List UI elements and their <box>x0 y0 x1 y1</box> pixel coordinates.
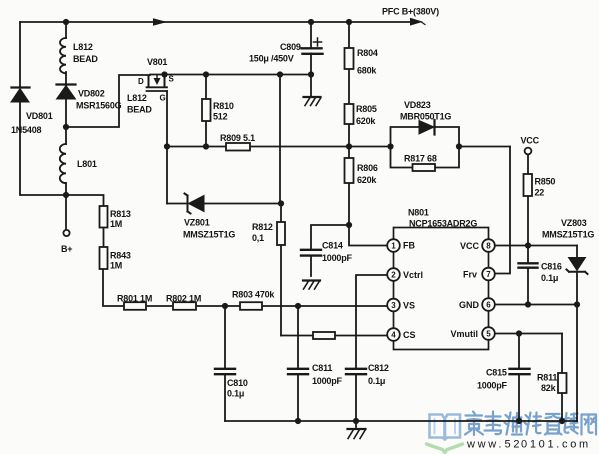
capacitor C812 <box>346 369 366 374</box>
svg-text:Vmutil: Vmutil <box>450 329 478 339</box>
label C815 1000pF <box>477 368 508 391</box>
svg-text:L812: L812 <box>73 42 93 52</box>
svg-text:GND: GND <box>459 300 480 310</box>
wire C815 column <box>518 334 520 422</box>
svg-text:VZ801: VZ801 <box>184 218 210 228</box>
capacitor C809 electrolytic <box>302 38 323 54</box>
label R810 512 <box>213 101 234 122</box>
svg-text:VS: VS <box>403 301 415 311</box>
wire VZ801 leads <box>167 203 281 205</box>
transistor V801 MOSFET <box>147 75 168 91</box>
svg-text:VCC: VCC <box>460 241 480 251</box>
svg-text:BEAD: BEAD <box>73 54 98 64</box>
label VD823 MBR050T1G <box>400 100 451 122</box>
node FB/C814 <box>346 222 352 228</box>
svg-text:680k: 680k <box>357 66 377 76</box>
wire R850/C816 column <box>527 155 529 305</box>
svg-text:BEAD: BEAD <box>127 105 152 115</box>
svg-text:L812: L812 <box>127 93 147 103</box>
svg-text:2: 2 <box>391 271 396 280</box>
svg-text:4: 4 <box>391 331 396 340</box>
svg-text:0101.com: 0101.com <box>521 439 591 451</box>
resistor R850 <box>524 174 533 196</box>
resistor R803 <box>240 302 262 310</box>
svg-text:D: D <box>138 77 144 86</box>
capacitor C811 <box>288 369 308 374</box>
svg-text:www.: www. <box>466 439 504 451</box>
node box-left/146 <box>387 143 393 149</box>
node source/S <box>161 71 167 77</box>
wire C814 link <box>311 225 349 276</box>
label C811 1000pF <box>312 363 343 386</box>
svg-text:C810: C810 <box>227 378 248 388</box>
svg-text:R812: R812 <box>252 222 273 232</box>
svg-text:C812: C812 <box>368 363 389 373</box>
arrow PFC B+ output <box>410 18 425 26</box>
label D S G <box>138 75 175 103</box>
capacitor C816 <box>519 263 538 267</box>
resistor R806 <box>345 158 354 183</box>
node source/C809 <box>308 71 314 77</box>
node top-bus/C809 <box>308 19 314 25</box>
wire pin5 line <box>495 333 562 335</box>
svg-text:C814: C814 <box>322 241 343 251</box>
svg-text:1M: 1M <box>110 261 122 271</box>
svg-text:VD823: VD823 <box>404 100 431 110</box>
node top-bus/input <box>63 19 69 25</box>
resistor R810 <box>202 99 211 121</box>
svg-text:82k: 82k <box>541 383 557 393</box>
capacitor C814 <box>301 250 321 256</box>
wire 146-line <box>167 146 510 148</box>
wire R810 leads <box>205 75 207 147</box>
svg-text:MMSZ15T1G: MMSZ15T1G <box>542 230 594 240</box>
svg-text:R811: R811 <box>537 373 557 383</box>
svg-text:R809 5.1: R809 5.1 <box>220 133 255 143</box>
wire FB link <box>349 225 387 246</box>
svg-text:1M: 1M <box>110 219 122 229</box>
wire input column (L812/VD802/L801) <box>65 22 67 195</box>
svg-text:R817 68: R817 68 <box>404 154 437 164</box>
node source/280 <box>277 71 283 77</box>
svg-text:7: 7 <box>486 270 491 279</box>
label R817 68 <box>404 154 437 164</box>
svg-text:1N5408: 1N5408 <box>11 125 42 135</box>
svg-text:5: 5 <box>486 330 491 339</box>
resistor R801 <box>124 302 146 310</box>
node bus/C815 <box>516 418 522 424</box>
node bus/R811 <box>559 418 565 424</box>
wire VZ803 column <box>576 246 578 422</box>
wire VD823 to pin7 <box>495 147 510 274</box>
IC N801 NCP1653ADR2G <box>387 228 495 350</box>
wire B+ terminal stub <box>65 195 67 230</box>
inductor L812 bead <box>60 38 66 73</box>
diode VD802 MSR1560G <box>57 85 76 100</box>
node VS/C811 <box>295 303 301 309</box>
label C814 1000pF <box>322 241 353 264</box>
wire left input branch <box>20 22 66 195</box>
label IC pin numbers <box>391 242 491 340</box>
label L812 BEAD gate <box>127 93 152 115</box>
label C809 150u/450V <box>249 42 301 64</box>
wire GND pin6 line <box>495 304 577 306</box>
svg-text:B+: B+ <box>61 244 72 254</box>
node R810/146 <box>203 143 209 149</box>
svg-text:150μ /450V: 150μ /450V <box>249 54 294 64</box>
wire R812 leads <box>280 204 282 336</box>
svg-text:VD802: VD802 <box>78 89 105 99</box>
svg-text:0.1μ: 0.1μ <box>227 389 244 399</box>
WATERMARK <box>427 412 597 453</box>
svg-text:FB: FB <box>403 241 415 251</box>
svg-text:N801: N801 <box>408 208 429 218</box>
label VZ803 MMSZ15T1G <box>542 218 594 240</box>
svg-text:R803 470k: R803 470k <box>232 290 275 300</box>
svg-text:CS: CS <box>403 330 416 340</box>
label V801 <box>147 57 167 67</box>
label IC pin names <box>403 241 480 341</box>
watermark book icon <box>427 415 463 453</box>
wire CS line <box>281 335 387 337</box>
svg-text:VZ803: VZ803 <box>561 218 587 228</box>
svg-text:R843: R843 <box>110 251 131 261</box>
resistor R805 <box>345 104 354 124</box>
node GND/VZ803 <box>574 301 580 307</box>
node VZ801/R812 <box>278 200 284 206</box>
label R804 680k <box>357 48 378 76</box>
svg-text:L801: L801 <box>77 159 97 169</box>
svg-text:R802 1M: R802 1M <box>166 294 201 304</box>
svg-text:R801 1M: R801 1M <box>117 294 152 304</box>
svg-text:1000pF: 1000pF <box>477 381 508 391</box>
node gate/146 <box>164 143 170 149</box>
svg-text:6: 6 <box>486 301 491 310</box>
terminal B+ <box>63 230 69 236</box>
diode VZ801 MMSZ15T1G zener <box>185 194 205 214</box>
svg-text:C816: C816 <box>541 262 562 272</box>
svg-text:MBR050T1G: MBR050T1G <box>400 112 451 122</box>
svg-text:R806: R806 <box>357 163 378 173</box>
label R813 1M <box>110 209 131 229</box>
resistor R802 <box>173 302 196 310</box>
svg-text:V801: V801 <box>147 57 167 67</box>
resistor R811 <box>558 373 567 393</box>
label B+ terminal <box>61 244 72 254</box>
wire VS line <box>103 269 387 306</box>
label R811 82k <box>537 373 557 394</box>
svg-text:C809: C809 <box>280 42 301 52</box>
svg-text:620k: 620k <box>356 116 376 126</box>
svg-text:620k: 620k <box>357 175 377 185</box>
resistor R809 <box>226 143 250 151</box>
label L801 <box>77 159 97 169</box>
wire R813/R843 sense divider column <box>66 195 104 247</box>
node pin5/C815 <box>516 330 522 336</box>
resistor R812 <box>277 222 285 245</box>
svg-text:R850: R850 <box>535 177 556 187</box>
node VS/C810 <box>222 303 228 309</box>
wire bottom ground bus <box>225 420 577 422</box>
wire source to VZ801 link <box>279 75 281 204</box>
svg-text:Frv: Frv <box>463 270 477 280</box>
node top-bus/R804 <box>346 19 352 25</box>
svg-text:S: S <box>169 75 175 84</box>
node bus/C812 <box>353 418 359 424</box>
svg-text:22: 22 <box>535 188 545 198</box>
resistor R813 <box>100 206 108 228</box>
node R805/146 <box>346 143 352 149</box>
label R812 0.1 <box>252 222 273 243</box>
svg-text:R813: R813 <box>110 209 131 219</box>
capacitor C810 <box>215 369 235 374</box>
svg-text:Vctrl: Vctrl <box>403 270 423 280</box>
label L812 BEAD <box>73 42 98 64</box>
watermark text 520101 site name <box>465 412 596 436</box>
svg-text:0,1: 0,1 <box>252 233 264 243</box>
label R803 470k <box>232 290 275 300</box>
node GND/C816 <box>525 301 531 307</box>
label VCC terminal <box>521 136 540 146</box>
svg-text:52: 52 <box>505 439 523 451</box>
svg-text:MSR1560G: MSR1560G <box>76 101 122 111</box>
ground under C814 <box>303 281 320 290</box>
label R801 1M <box>117 294 152 304</box>
svg-text:0.1μ: 0.1μ <box>368 376 385 386</box>
resistor R817 <box>413 164 436 171</box>
resistor R843 <box>100 247 108 269</box>
capacitor C815 <box>510 369 530 374</box>
node bus/C811 <box>295 418 301 424</box>
label C810 0.1u <box>227 378 248 399</box>
ground under C809 <box>304 97 321 106</box>
svg-text:VD801: VD801 <box>26 111 53 121</box>
svg-text:R805: R805 <box>356 104 377 114</box>
terminal VCC <box>525 148 532 155</box>
label C816 0.1u <box>541 262 562 284</box>
wire top B+ bus <box>20 21 410 23</box>
svg-text:8: 8 <box>486 242 491 251</box>
label R843 1M <box>110 251 131 271</box>
svg-text:512: 512 <box>213 112 228 122</box>
resistor on CS line <box>313 332 335 339</box>
ground main bottom <box>348 429 366 439</box>
wire drain feed <box>66 75 150 127</box>
wire C810 column <box>224 306 226 421</box>
label VZ801 MMSZ15T1G <box>183 218 235 240</box>
diode VD801 1N5408 <box>11 88 30 103</box>
diode VD823 with R817 box <box>391 120 460 168</box>
label R809 5.1 <box>220 133 255 143</box>
svg-text:C811: C811 <box>312 363 332 373</box>
wire C809 column <box>310 22 312 96</box>
label R802 1M <box>166 294 201 304</box>
svg-text:R810: R810 <box>213 101 234 111</box>
wire VCC pin8 line <box>495 245 577 247</box>
wire source line <box>150 74 311 76</box>
wire R811 leads <box>561 334 563 422</box>
svg-text:G: G <box>160 94 166 103</box>
svg-text:NCP1653ADR2G: NCP1653ADR2G <box>409 219 477 229</box>
label VD801 1N5408 <box>11 111 53 135</box>
label VD802 MSR1560G <box>76 89 122 111</box>
node L801/B+ <box>63 192 69 198</box>
node pin8/R850 <box>525 242 531 248</box>
label R850 22 <box>535 177 556 198</box>
wire R804-R806 column <box>348 22 350 225</box>
node VD802/L801 <box>63 124 69 130</box>
svg-text:C815: C815 <box>486 368 507 378</box>
inductor L801 <box>60 144 66 183</box>
svg-text:3: 3 <box>391 301 396 310</box>
svg-text:0.1μ: 0.1μ <box>541 273 558 283</box>
diode VZ803 MMSZ15T1G zener <box>567 258 588 275</box>
node box-right/146 <box>456 143 462 149</box>
svg-text:R804: R804 <box>357 48 378 58</box>
wire gate line <box>166 91 168 204</box>
wire C811 column <box>297 306 299 421</box>
svg-text:MMSZ15T1G: MMSZ15T1G <box>183 230 235 240</box>
label N801 NCP1653ADR2G <box>408 208 477 229</box>
wire pin2 to C812 <box>356 275 387 427</box>
svg-text:PFC B+(380V): PFC B+(380V) <box>382 7 439 17</box>
svg-text:1000pF: 1000pF <box>312 376 343 386</box>
watermark url www.520101.com <box>466 439 591 451</box>
label C812 0.1u <box>368 363 389 386</box>
label R805 620k <box>356 104 377 126</box>
label PFC B+ (380V) <box>382 7 439 17</box>
svg-text:1: 1 <box>391 242 396 251</box>
svg-text:VCC: VCC <box>521 136 540 146</box>
arrow mid top bus <box>153 18 167 26</box>
resistor R804 <box>345 48 354 69</box>
label R806 620k <box>357 163 378 185</box>
node source/R810 <box>203 71 209 77</box>
svg-text:1000pF: 1000pF <box>322 253 353 263</box>
